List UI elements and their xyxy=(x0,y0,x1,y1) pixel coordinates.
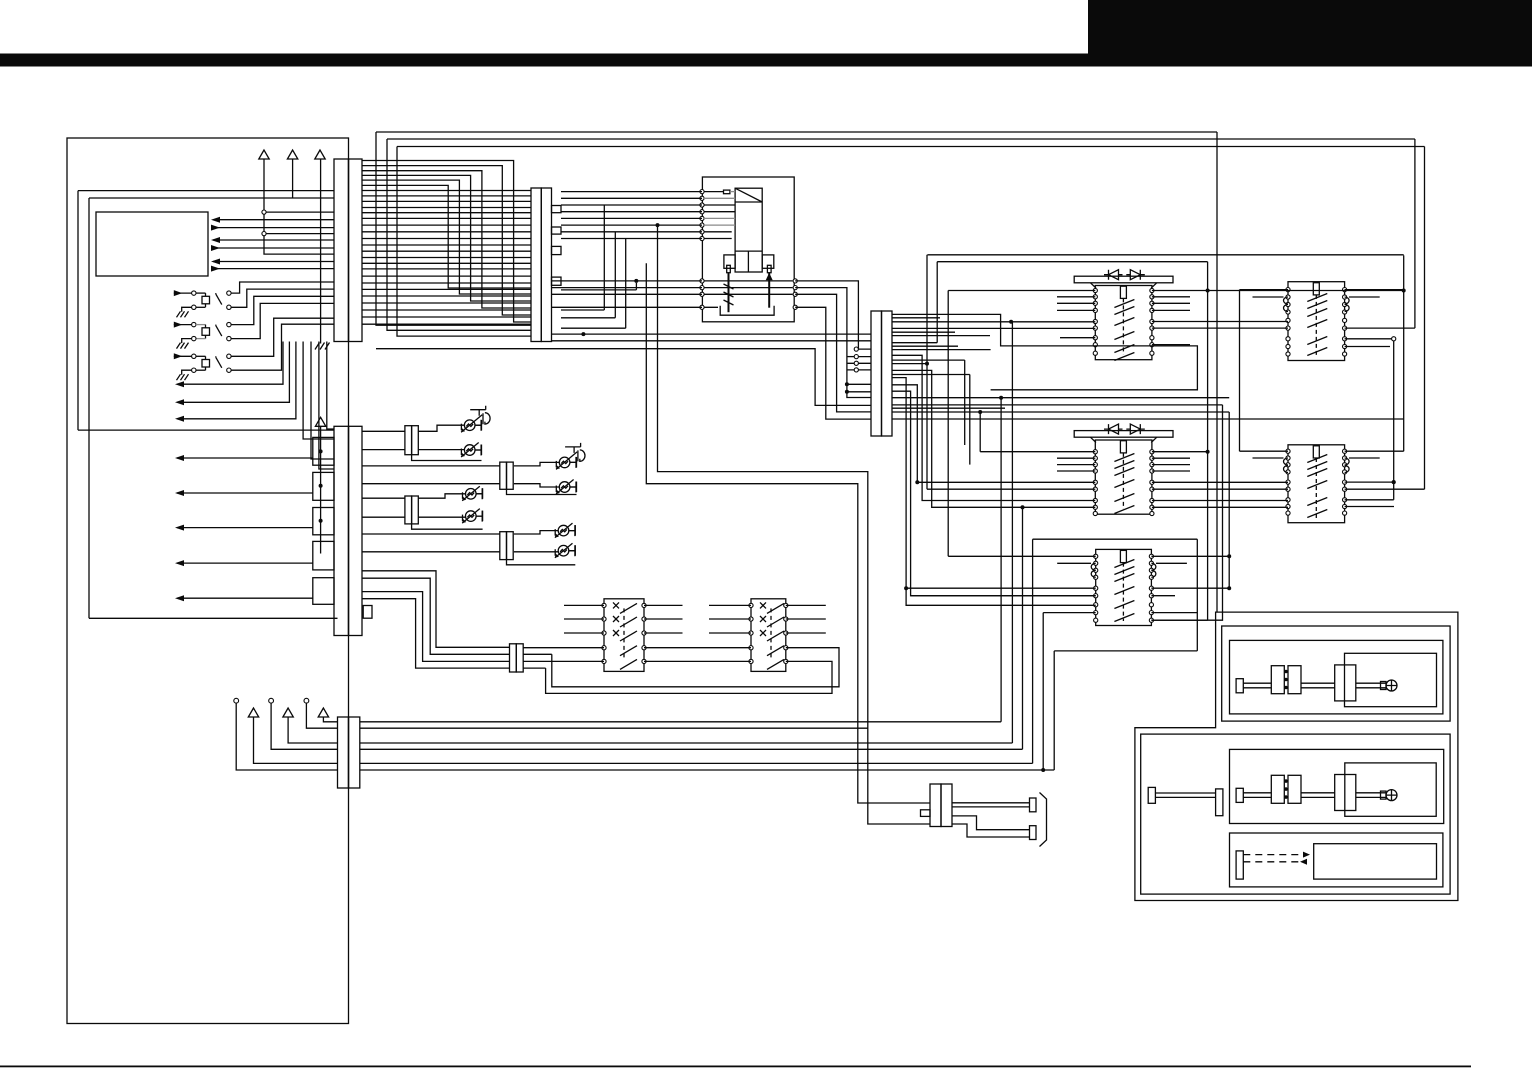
arrowhead xyxy=(175,416,184,422)
wire P1 r1 xyxy=(795,281,858,349)
wire vbus 1239 xyxy=(1239,290,1241,452)
wire S1 stub L605.4 xyxy=(564,604,604,606)
switch block S2 xyxy=(749,599,788,672)
wire bus row 245.0 xyxy=(362,244,531,246)
wire sensor 3a xyxy=(231,318,334,356)
relay R4 left pins xyxy=(1286,288,1290,357)
wire R3 stub R6 xyxy=(1151,595,1175,597)
wire C2-P1 row 191.6 xyxy=(561,191,702,193)
wire C4 term4 xyxy=(288,717,337,743)
wire hbus 255 xyxy=(927,254,1403,256)
wire sensor 3b xyxy=(231,324,334,370)
wire R2 stub R464.6 xyxy=(1152,464,1190,466)
wire frame 1 xyxy=(78,191,334,431)
wire vbus 1022 xyxy=(1022,507,1024,749)
wire weave 321b xyxy=(1152,321,1288,323)
wire R4 stub L2 xyxy=(1253,296,1284,298)
diode D-R1b xyxy=(1126,270,1145,280)
wire inj 1b xyxy=(418,449,464,451)
motor M2 xyxy=(1236,775,1397,811)
wire S2 stub L619 xyxy=(709,618,751,620)
wire inj feed 1a xyxy=(362,430,405,432)
wire sw row4 loop xyxy=(523,648,839,687)
wire C4 term3 xyxy=(271,703,337,749)
wire weave 404v xyxy=(1151,405,1222,620)
wire down 4 xyxy=(327,342,334,430)
wire R2 stub R471.0 xyxy=(1152,470,1190,472)
wire vbus 1054 xyxy=(1053,651,1055,770)
wire hbus 261 xyxy=(937,261,1207,263)
wire bus row 303.0 xyxy=(362,302,531,304)
wire inj 2b end xyxy=(570,482,577,493)
wire R3 row8 R xyxy=(1151,612,1197,614)
connector C1 xyxy=(334,159,362,342)
wire P1 r3 xyxy=(795,294,871,412)
wire weave 335 xyxy=(892,335,990,337)
wire S2 stub R605.4 xyxy=(786,604,826,606)
wire row 384 xyxy=(847,383,871,385)
wire sensor 2b xyxy=(231,303,334,338)
wire bus row 263.3 xyxy=(362,262,531,264)
relay R2 left pins xyxy=(1093,450,1097,516)
relay R2 contacts xyxy=(1114,454,1134,514)
wire input row 563.1 xyxy=(177,562,313,564)
diode D-R2b xyxy=(1126,424,1145,434)
wire R2 stub L471.0 xyxy=(1057,470,1095,472)
wire top bus 1 xyxy=(376,131,1217,133)
wire weave 360v xyxy=(964,360,966,445)
injector connector IC2 xyxy=(405,496,418,524)
wire weave 332 xyxy=(892,331,955,333)
injector I1 xyxy=(461,406,490,433)
wire R1 stub L303.3 xyxy=(1057,302,1095,304)
relay box P1 xyxy=(702,177,794,322)
wire R2 stub L464.6 xyxy=(1057,464,1095,466)
wire row 507 mid xyxy=(1152,506,1288,508)
wire bus row 296.0 xyxy=(362,295,531,297)
wire riser T3 xyxy=(320,159,322,344)
wire R5 stub R2 xyxy=(1349,457,1380,459)
wire bus row 170 xyxy=(362,171,531,308)
wire row 482 R xyxy=(1345,481,1394,483)
relay R3 right pins xyxy=(1149,554,1153,622)
wire riser T2 xyxy=(292,159,294,198)
wire R4 row1 R xyxy=(1345,289,1404,291)
wire weave 588 xyxy=(906,587,1096,589)
wire bus row 324.2 xyxy=(362,323,531,325)
actuator box3 xyxy=(1230,833,1443,887)
wire row 651 xyxy=(1054,650,1197,652)
wire vbus 1229 xyxy=(1228,412,1230,588)
sensor relay group 3 xyxy=(174,353,231,380)
wire weave 397 xyxy=(892,397,1229,399)
wire jumper J2 xyxy=(561,232,615,318)
wire R4 row8 R xyxy=(1345,346,1390,348)
wire inj feed 2b xyxy=(362,483,500,485)
wire inj feed 3a xyxy=(362,497,405,499)
wire C2-P1 row 218.4 xyxy=(561,217,702,219)
wire P1 r4 xyxy=(795,307,871,419)
wire P1 r2 tap xyxy=(847,356,854,358)
wire riser A xyxy=(376,132,531,325)
wire R4 stub R2 xyxy=(1349,296,1380,298)
relay R4 right pins xyxy=(1343,288,1347,357)
wire C5 pair1a xyxy=(952,802,1030,804)
terminal circle P7 xyxy=(304,698,309,703)
wire weave 363 xyxy=(892,363,927,365)
arrowhead xyxy=(211,237,220,243)
wire bus row 201.4 xyxy=(362,200,531,202)
relay R1 contacts xyxy=(1114,300,1134,361)
wire weave 412b xyxy=(980,411,1229,413)
wire vbus 937 xyxy=(936,262,938,343)
wire module row 268.6 xyxy=(213,268,334,270)
wire weave 349 xyxy=(892,349,991,351)
injector connector IC3 xyxy=(500,462,513,489)
wire sw row5 b xyxy=(644,660,751,662)
wire weave 412a xyxy=(892,411,980,413)
terminal triangle T7 xyxy=(318,708,328,717)
wire module row 248 xyxy=(213,247,334,249)
wire S2 stub L605.4 xyxy=(709,604,751,606)
wire sw feed 4 xyxy=(362,599,510,668)
wire C4 row6 xyxy=(360,769,1054,771)
injector I5 xyxy=(462,486,482,501)
wire out 3 xyxy=(177,342,296,419)
wire vertical bus V1425 xyxy=(1424,147,1426,490)
arrowhead xyxy=(211,217,220,223)
arrowhead xyxy=(211,266,220,272)
wire row 430 xyxy=(78,429,334,431)
wire bus row 251.2 xyxy=(362,250,531,252)
wire C2-P1 row 225.1 xyxy=(561,224,702,226)
terminal triangle T3 xyxy=(315,150,325,159)
relay R2 xyxy=(1074,431,1173,515)
wire frame 2 xyxy=(89,198,338,618)
arrowhead xyxy=(211,225,220,231)
wire down 1 xyxy=(303,342,334,440)
diode D-R1a xyxy=(1104,270,1123,280)
relay R4 coil loops xyxy=(1284,297,1350,312)
junction circle xyxy=(1392,337,1396,341)
wire module row 219.7 xyxy=(213,219,334,221)
wire jumper J4 xyxy=(561,283,636,290)
wire bus row 225.1 xyxy=(362,224,531,226)
wire sw row4 b xyxy=(644,647,751,649)
wire S2 stub R619 xyxy=(786,618,826,620)
wire row 539 xyxy=(1033,538,1198,540)
footer rule xyxy=(0,1066,1471,1068)
diode D-R2a xyxy=(1104,424,1123,434)
relay box P1 lower-right pins xyxy=(793,279,797,310)
wire C2-P1 row 198.3 xyxy=(561,197,702,199)
relay R4 xyxy=(1288,282,1345,361)
header bar xyxy=(0,54,1532,67)
wire C4 term1 xyxy=(236,703,337,770)
wire weave 328c xyxy=(1345,327,1415,329)
switch block S1 xyxy=(602,599,646,672)
wire R3 row8 L xyxy=(1043,612,1096,614)
wire weave 346 xyxy=(892,345,958,347)
arrowhead xyxy=(175,525,184,531)
wire R2 row1 riser xyxy=(979,412,981,452)
relay box P1 coil stubs xyxy=(704,192,793,308)
wire S2 stub R633 xyxy=(786,632,826,634)
wire R1 row1 R xyxy=(1152,290,1404,292)
terminal triangle T5 xyxy=(248,708,258,717)
junction circle xyxy=(262,232,266,236)
wire C2-P1 low row 280.9 xyxy=(552,280,703,282)
wire module row 227.6 xyxy=(213,227,334,229)
wire C5 pair1b xyxy=(952,806,1030,808)
wire top bus 3 xyxy=(397,146,1425,148)
terminal circle P6 xyxy=(269,698,274,703)
wire jumper J3 xyxy=(561,239,626,329)
wire bus row 317.0 xyxy=(362,316,531,318)
wire sw row4 a xyxy=(523,647,604,649)
terminal circle P5 xyxy=(234,698,239,703)
wire sensor 2a xyxy=(231,296,334,324)
wire weave 317 xyxy=(892,317,940,319)
actuator container xyxy=(1135,612,1458,900)
wire R1 stub L296.8 xyxy=(1057,296,1095,298)
wire riser T4 xyxy=(320,426,322,553)
wire inj 3a end xyxy=(476,488,482,499)
wire weave 419 xyxy=(892,418,1404,420)
wire long riser 2 xyxy=(646,263,930,803)
terminal triangle T4 xyxy=(315,417,325,426)
wire vbus 1197 xyxy=(1196,539,1198,651)
wire R5 row1 R xyxy=(1345,450,1404,452)
wire C2-P1 row 205 xyxy=(561,204,702,206)
wire bus row 231.8 xyxy=(362,231,531,233)
wire C4 term2 xyxy=(254,717,338,763)
wire row 507 R xyxy=(1345,506,1394,508)
motor M2 input link xyxy=(1148,787,1223,815)
wire S2 stub L633 xyxy=(709,632,751,634)
arrowhead xyxy=(175,595,184,601)
wire sw feed 3 xyxy=(362,592,510,662)
wire inj feed 2a xyxy=(362,465,500,467)
wire vbus 1403 xyxy=(1403,255,1405,451)
wire S1 stub R633 xyxy=(644,632,683,634)
wire bus row 165 xyxy=(362,166,531,315)
wire bus row 289.4 xyxy=(362,288,531,290)
injector I8 xyxy=(555,543,575,558)
wire bus row 207.5 xyxy=(362,207,531,209)
relay R4 contacts xyxy=(1307,294,1327,356)
wire weave 374 xyxy=(892,374,970,376)
wire S1 stub L633 xyxy=(564,632,604,634)
wire C2-P1 low row 307.3 xyxy=(552,306,703,308)
wire vertical bus V1217 xyxy=(1216,132,1218,612)
wire bus row 160 xyxy=(362,161,531,323)
wire vbus 927 xyxy=(926,255,928,489)
arrowhead xyxy=(211,259,220,265)
wire inj 4a end xyxy=(569,525,575,536)
wire inj 4b xyxy=(514,551,558,553)
wire S1 stub L619 xyxy=(564,618,604,620)
wire sw row5 a xyxy=(523,660,604,662)
wire C2-P1 row 211.7 xyxy=(561,211,702,213)
wire riser B xyxy=(387,139,531,330)
connector C1b xyxy=(313,426,372,635)
wire vbus 948 xyxy=(947,291,949,557)
wire weave 321a xyxy=(892,321,1095,323)
wire R3 row1 L xyxy=(948,555,1095,557)
wire weave 328a xyxy=(892,327,1095,329)
wire inj 1a xyxy=(418,425,464,431)
sensor relay group 2 xyxy=(174,322,231,349)
connector C4b xyxy=(510,644,524,672)
wire R1 stub R344 xyxy=(1152,344,1190,346)
wire inj feed 3b xyxy=(362,516,405,518)
wire C4 term6 xyxy=(323,717,337,722)
wire bus row 185 xyxy=(362,185,531,288)
wire R1 stub L337 xyxy=(1060,337,1095,339)
wire down 3 xyxy=(319,342,334,470)
wire R1 stub R303.3 xyxy=(1152,302,1190,304)
wire bus row 190.5 xyxy=(362,190,531,192)
injector I7 xyxy=(555,523,575,538)
wire sw row5 loop xyxy=(523,661,832,693)
wire weave 370 xyxy=(892,370,1095,507)
wire C2-P1 low row 287.6 xyxy=(552,287,703,289)
wire riser T1 xyxy=(264,159,334,254)
wire sensor 1b xyxy=(231,289,334,307)
wire R4 row7 R xyxy=(1345,338,1392,340)
wire bus row 310.0 xyxy=(362,309,531,311)
wire input row 493 xyxy=(177,492,313,494)
relay R1 right pins xyxy=(1150,288,1154,355)
wire C4 row3 xyxy=(360,742,1013,744)
terminal triangle T2 xyxy=(287,150,297,159)
header block xyxy=(1088,0,1532,67)
relay box P1 lower-left pins xyxy=(700,279,704,310)
wire R3 row5 R xyxy=(1151,587,1229,589)
arrowhead xyxy=(175,399,184,405)
wire bus row 218.4 xyxy=(362,217,531,219)
wire R3 row9 R xyxy=(1151,619,1207,621)
wire S1 stub R619 xyxy=(644,618,683,620)
arrowhead xyxy=(175,455,184,461)
wire inj feed 4b xyxy=(362,551,500,553)
injector I2 xyxy=(461,443,481,458)
ground G-C1 xyxy=(315,343,330,350)
wire inj 2a end xyxy=(570,457,577,468)
wire bus row 268.9 xyxy=(362,268,531,270)
wire C4 row5 xyxy=(360,762,1033,764)
wire vbus 1012 xyxy=(1011,322,1013,743)
wire bus row 257.5 xyxy=(362,257,531,259)
wire branch T1b xyxy=(264,233,334,235)
wire down 2 xyxy=(311,342,334,460)
actuator box2 xyxy=(1141,734,1450,894)
arrowhead xyxy=(175,490,184,496)
wire vbus 1393 xyxy=(1393,341,1395,500)
relay R5 contacts xyxy=(1307,455,1327,518)
wire module row 240 xyxy=(213,239,334,241)
wire row 500 mid xyxy=(1152,500,1288,502)
wire R2 row1 R xyxy=(1152,451,1208,453)
wire R5 stub L2 xyxy=(1253,457,1284,459)
relay R1 left pins xyxy=(1093,288,1097,355)
wire row 348 xyxy=(376,349,871,406)
wire inj 2b xyxy=(514,484,559,487)
arrowhead xyxy=(175,560,184,566)
injector I3 xyxy=(556,443,585,470)
injector connector IC4 xyxy=(500,532,513,560)
wire input row 598.2 xyxy=(177,597,313,599)
wire R4 row1 L xyxy=(1240,289,1289,291)
wire inj 1 wrap xyxy=(412,455,482,461)
wire sw feed 1 xyxy=(362,571,510,648)
wire bus row 180 xyxy=(362,180,531,294)
ECU module box xyxy=(96,212,208,276)
wire weave 391 xyxy=(892,391,1096,596)
connector C2 xyxy=(531,188,561,342)
wire bus row 175 xyxy=(362,175,531,301)
wire C5 pair2a xyxy=(952,816,1030,830)
wire inj 4a xyxy=(514,531,558,534)
wire row 489 mid xyxy=(1152,488,1288,490)
wire inj 2 wrap xyxy=(507,489,577,494)
wire vbus 1032 xyxy=(1032,539,1034,763)
wire S1 stub R605.4 xyxy=(644,604,683,606)
wire R3 row1 R xyxy=(1151,555,1229,557)
wire inj 4 wrap xyxy=(507,560,576,565)
wire out 2 xyxy=(177,342,289,403)
wire sensor 1a xyxy=(231,282,334,293)
connector C4 xyxy=(338,717,360,788)
wire inj 1b end xyxy=(475,445,481,456)
connector C3 xyxy=(871,311,892,436)
wire weave 342 xyxy=(892,342,937,344)
wire C2-P1 row 238.5 xyxy=(561,238,702,240)
wire weave 314 xyxy=(892,314,1197,389)
wire input row 458 xyxy=(177,457,313,459)
wire inj 3 wrap xyxy=(412,524,483,529)
wire C2-P1 low row 294.3 xyxy=(552,293,703,295)
wire weave 408 xyxy=(892,407,1005,409)
wire vbus 1207 xyxy=(1207,262,1209,621)
wire row 489 R xyxy=(1345,488,1425,490)
wire C4 row4 xyxy=(360,748,1023,750)
wire inj 3a xyxy=(418,494,465,498)
wire bus row 283.0 xyxy=(362,282,531,284)
wire weave 404 xyxy=(892,404,1223,406)
wire R1 stub R296.8 xyxy=(1152,296,1190,298)
wire R3 stub R2 xyxy=(1156,562,1187,564)
wire inj feed 1b xyxy=(362,449,405,451)
wire jumper J1 xyxy=(561,205,604,310)
wire bus row 195.9 xyxy=(362,195,531,197)
wire bus row 276.1 xyxy=(362,275,531,277)
wire C4 row2 xyxy=(360,727,868,729)
wire input row 527.6 xyxy=(177,527,313,529)
wire weave 363b xyxy=(927,488,1095,490)
wire C4 term5 xyxy=(306,703,337,728)
relay R3 coil loops xyxy=(1091,563,1156,577)
wire row 341 xyxy=(552,340,872,342)
wire sw feed 2 xyxy=(362,578,510,654)
wire bus row 212.7 xyxy=(362,212,531,214)
relay R1 xyxy=(1074,276,1173,360)
relay box P1 left pins xyxy=(700,190,704,241)
terminal triangle T6 xyxy=(283,708,293,717)
wire module row 261.5 xyxy=(213,261,334,263)
wire weave 384 xyxy=(892,385,1095,483)
